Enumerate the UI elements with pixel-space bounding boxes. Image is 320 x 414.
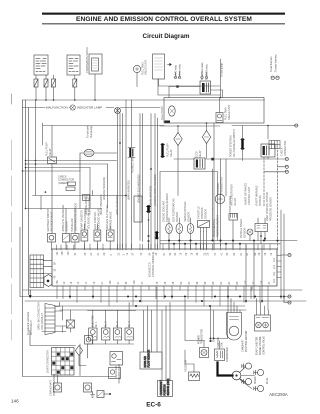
svg-text:To air flow meter: To air flow meter xyxy=(201,62,204,80)
camshaft sensor small xyxy=(84,383,92,392)
camshaft position sensor body xyxy=(227,313,242,341)
wire mid-left horizontals xyxy=(23,161,117,172)
svg-text:FLOW SENSOR: FLOW SENSOR xyxy=(148,350,151,368)
engine coolant temperature sensor xyxy=(166,224,173,234)
svg-text:(ENGINE SUB HARNESS): (ENGINE SUB HARNESS) xyxy=(138,174,141,203)
wire harness riser E xyxy=(155,114,158,249)
svg-text:(MAIN HARNESS): (MAIN HARNESS) xyxy=(128,180,131,200)
svg-text:POSITION SENSOR: POSITION SENSOR xyxy=(53,374,56,396)
connector label pair A xyxy=(174,63,181,78)
node bus2 joints xyxy=(69,296,285,308)
svg-text:PRESSURE SENSOR: PRESSURE SENSOR xyxy=(270,197,273,221)
svg-text:102: 102 xyxy=(109,280,112,285)
vehicle speed sensor box xyxy=(97,391,111,398)
oxygen sensor heater comb xyxy=(229,214,238,221)
harness label column xyxy=(103,174,157,205)
fuel pump relay label xyxy=(46,142,53,156)
node left bus joints xyxy=(22,160,27,210)
EGR valve motor circle xyxy=(247,229,253,235)
camshaft position sensor label xyxy=(242,330,248,352)
fuse F3 xyxy=(52,79,56,87)
throttle position sensor xyxy=(198,221,210,232)
svg-text:GAUGE UNIT: GAUGE UNIT xyxy=(145,60,148,75)
distributor rotor xyxy=(232,371,241,380)
svg-text:146: 146 xyxy=(11,399,19,404)
svg-text:SENSOR (OBD): SENSOR (OBD) xyxy=(168,378,170,395)
injector No2 xyxy=(102,328,110,340)
connector bold bracket A xyxy=(161,145,164,157)
svg-text:To fuel pump: To fuel pump xyxy=(221,63,224,77)
junction bus row2 xyxy=(160,243,280,245)
svg-text:FUSIBLE LINK: FUSIBLE LINK xyxy=(132,157,135,173)
terminal circle T6 xyxy=(284,297,291,305)
wire left riser A xyxy=(22,100,24,330)
injector No3 xyxy=(113,328,121,340)
ECM box xyxy=(52,249,277,286)
svg-text:RELAY: RELAY xyxy=(170,149,173,157)
svg-text:No. 1: No. 1 xyxy=(96,321,98,327)
crankshaft REF label xyxy=(50,374,57,396)
tachometer small box xyxy=(85,336,93,345)
svg-text:HO2S HEATER: HO2S HEATER xyxy=(229,196,232,213)
wire relay cluster xyxy=(160,122,220,195)
ignition switch SW1 xyxy=(34,55,48,75)
junction square bus xyxy=(205,158,240,161)
EVAP volume control valve box xyxy=(255,315,271,331)
svg-text:ENGINE AND EMISSION CONTROL OV: ENGINE AND EMISSION CONTROL OVERALL SYST… xyxy=(76,16,252,23)
consult note label xyxy=(27,312,33,335)
svg-text:To ECCS relay: To ECCS relay xyxy=(206,64,209,80)
thermal transmitter circle xyxy=(215,194,225,204)
svg-text:PLUG: PLUG xyxy=(267,378,269,384)
svg-text:113: 113 xyxy=(273,265,276,269)
terminal circle T3 xyxy=(278,165,289,168)
svg-text:POWER: POWER xyxy=(198,335,200,344)
solenoid labels mid xyxy=(81,205,113,229)
fuse F2 xyxy=(44,79,48,87)
wire mid-left risers xyxy=(52,145,108,209)
svg-text:SENSOR: SENSOR xyxy=(176,212,179,222)
wire OBD drops xyxy=(162,302,170,380)
svg-text:115: 115 xyxy=(273,279,276,283)
spark plug 4 xyxy=(254,385,264,391)
wire harness riser D xyxy=(150,114,152,249)
wire relay link xyxy=(169,85,223,97)
wire fuel pump feed vertical xyxy=(220,59,222,98)
main top bus xyxy=(23,97,265,101)
svg-text:114: 114 xyxy=(260,280,263,284)
svg-text:POSITION SENSOR: POSITION SENSOR xyxy=(246,330,248,352)
IACV label xyxy=(115,363,121,383)
svg-text:112: 112 xyxy=(244,280,247,284)
wire sensor row drops xyxy=(169,209,233,249)
wire right-bottom risers xyxy=(246,210,284,302)
fusible link FL1 xyxy=(128,148,135,158)
svg-text:103: 103 xyxy=(133,280,136,285)
svg-text:EVAP CANISTER: EVAP CANISTER xyxy=(256,336,259,355)
wire right risers xyxy=(213,123,227,248)
wire bracketC riser xyxy=(148,212,150,249)
connector ladder left xyxy=(30,255,44,288)
node EGR joints xyxy=(260,235,266,239)
IACV-FICD solenoid valve box xyxy=(109,368,121,379)
ECM left edge stubs xyxy=(43,260,57,278)
terminal circle T1 xyxy=(295,124,298,127)
fuse F1 xyxy=(34,79,38,87)
svg-text:POSITION SWITCH: POSITION SWITCH xyxy=(217,215,220,237)
connector bold bracket C xyxy=(147,207,150,212)
data link connector label xyxy=(38,302,45,330)
svg-text:CONTROL UNIT: CONTROL UNIT xyxy=(248,187,251,205)
EGR temperature sensor xyxy=(176,224,183,234)
wire right cluster xyxy=(240,125,285,159)
svg-text:SOLENOID VALVE: SOLENOID VALVE xyxy=(88,208,91,229)
terminal circle T4 xyxy=(264,170,288,173)
ignition coil label xyxy=(218,337,223,348)
wire EVAP drops xyxy=(251,287,269,315)
svg-text:SENSOR: SENSOR xyxy=(188,212,191,222)
ECM right edge pins xyxy=(273,256,281,284)
intake air temp sensor box xyxy=(71,234,79,243)
svg-text:SENSOR: SENSOR xyxy=(205,209,208,219)
svg-text:To A/C relay: To A/C relay xyxy=(175,64,178,78)
injector labels xyxy=(93,315,131,327)
wire camshaft drops xyxy=(228,287,240,312)
wire solenoid drops xyxy=(84,224,110,249)
spark plug 2 xyxy=(242,378,252,384)
fuel tank sub-harness label xyxy=(87,125,94,138)
wire bracketB riser xyxy=(232,126,295,161)
arrow to meter xyxy=(168,63,172,65)
fuse F4 xyxy=(73,79,77,87)
svg-text:CONTROL VALVE: CONTROL VALVE xyxy=(263,336,266,355)
blower switch box SW2 xyxy=(67,55,80,75)
svg-text:PURGE VOLUME: PURGE VOLUME xyxy=(260,336,262,355)
svg-text:SOLENOID VALVE: SOLENOID VALVE xyxy=(118,363,121,383)
relay K2 contacts xyxy=(194,158,205,169)
malfunction indicator lamp wire xyxy=(23,105,161,110)
left sensor labels xyxy=(47,203,78,232)
svg-text:To tail harness: To tail harness xyxy=(270,56,273,72)
svg-text:SPARK: SPARK xyxy=(254,376,257,384)
svg-text:AEC293A: AEC293A xyxy=(269,392,288,397)
ignition coil box xyxy=(215,349,225,361)
combination meter box xyxy=(89,54,102,74)
wire left riser C xyxy=(28,108,30,295)
header thick rule xyxy=(42,13,285,15)
fuel pump relay contact box xyxy=(48,157,57,164)
harness labels under line xyxy=(85,194,119,215)
svg-text:104: 104 xyxy=(67,251,70,256)
engine harness boundary xyxy=(160,172,218,249)
ECM top pin ticks xyxy=(56,244,270,250)
vacuum cut bypass valve xyxy=(107,230,115,241)
svg-text:EC-6: EC-6 xyxy=(146,402,161,409)
svg-text:POSITION: POSITION xyxy=(165,384,167,395)
terminal circle T7 xyxy=(281,253,291,256)
power transistor label xyxy=(198,329,203,344)
svg-text:JOINT CONNECTOR: JOINT CONNECTOR xyxy=(47,350,50,373)
joint connector X1 xyxy=(67,320,75,328)
spark plug label xyxy=(254,376,269,384)
svg-text:FUEL PUMP: FUEL PUMP xyxy=(161,106,164,120)
consult arrow xyxy=(29,290,32,298)
power transistor box xyxy=(200,348,209,358)
check connector grid xyxy=(269,141,280,149)
svg-text:101: 101 xyxy=(56,251,59,256)
junction bus row1 xyxy=(160,240,297,242)
scan edge artifact xyxy=(11,94,13,340)
svg-text:COMBINATION METER: COMBINATION METER xyxy=(86,47,89,73)
node riser dots xyxy=(148,219,150,242)
svg-text:RELAY: RELAY xyxy=(49,148,52,156)
svg-text:CONNECTOR: CONNECTOR xyxy=(284,140,287,156)
svg-text:(GREEN): (GREEN) xyxy=(58,182,69,185)
crankshaft position sensor REF xyxy=(54,383,62,392)
header thin rule xyxy=(42,22,285,25)
gauge sender labels xyxy=(225,105,232,120)
svg-text:(fuel pump): (fuel pump) xyxy=(90,126,93,138)
svg-text:MALFUNCTION: MALFUNCTION xyxy=(46,106,68,110)
svg-text:(ENGINE ROOM HARNESS): (ENGINE ROOM HARNESS) xyxy=(154,174,157,205)
dashed riser A xyxy=(263,157,265,206)
heated oxygen sensor xyxy=(187,224,194,234)
fuel pump relay box outline xyxy=(43,123,165,145)
EVAP purge solenoid valve xyxy=(81,230,88,241)
fuel tank gauge unit circle xyxy=(133,65,140,72)
ECCS relay label2 xyxy=(196,150,203,158)
wire SST link xyxy=(33,100,127,210)
svg-text:To main harness: To main harness xyxy=(275,54,278,72)
svg-text:Circuit Diagram: Circuit Diagram xyxy=(143,33,190,40)
wire center risers xyxy=(118,100,143,249)
svg-text:for CONSULT: for CONSULT xyxy=(30,320,33,335)
svg-text:COIL: COIL xyxy=(221,341,223,347)
svg-text:110: 110 xyxy=(273,258,276,262)
injector No1 xyxy=(89,328,97,340)
relay K0 xyxy=(200,81,211,94)
svg-text:SOLENOID VALVE: SOLENOID VALVE xyxy=(98,208,101,229)
park neutral switch labels xyxy=(213,192,273,238)
EGR control solenoid valve xyxy=(94,230,101,241)
svg-text:RELAY: RELAY xyxy=(199,150,202,158)
wire DLC links xyxy=(42,302,71,332)
svg-text:TRANSISTOR: TRANSISTOR xyxy=(201,329,204,344)
ECM top pin numbers xyxy=(56,251,273,256)
sub harness tall box xyxy=(134,196,142,222)
thermal transmitter label xyxy=(217,177,224,194)
ECM bottom pin ticks xyxy=(57,286,268,310)
fuel tank gauge sender xyxy=(216,113,223,123)
connector pentagon CN2 xyxy=(44,275,52,287)
connector bold bracket B xyxy=(241,140,244,149)
diamond D3 xyxy=(75,346,82,356)
relay coil diamond D2 xyxy=(202,131,210,144)
dashed riser B xyxy=(277,150,279,250)
terminal circle T5 xyxy=(288,295,291,298)
svg-text:IACV-FICD: IACV-FICD xyxy=(115,366,118,378)
spark high tension wire xyxy=(218,363,233,376)
fuel pump FP xyxy=(165,106,176,123)
wire MAF drops xyxy=(144,287,158,352)
IACV-AAC valve box xyxy=(110,352,123,366)
svg-text:CRANKSHAFT: CRANKSHAFT xyxy=(160,379,163,395)
svg-text:106: 106 xyxy=(56,280,59,285)
EVAP volume label xyxy=(256,336,266,355)
svg-text:RELAY: RELAY xyxy=(234,197,237,205)
MAP/BARO solenoid box xyxy=(48,234,56,243)
right sensor labels xyxy=(163,193,208,222)
ground G1 xyxy=(91,392,95,398)
wire blower feed xyxy=(74,75,76,100)
svg-text:OIL PRESSURE SWITCH: OIL PRESSURE SWITCH xyxy=(233,129,236,157)
svg-text:SENSOR: SENSOR xyxy=(244,228,247,238)
relay coil diamond D1 xyxy=(174,133,182,146)
svg-text:CONDENSER: CONDENSER xyxy=(227,347,229,362)
wire EGR links xyxy=(250,218,265,244)
tachometer box xyxy=(153,54,165,79)
connector oval CN1 xyxy=(80,149,117,171)
svg-text:GAUGE UNIT: GAUGE UNIT xyxy=(228,105,231,120)
wire bottom-left outline xyxy=(23,330,116,383)
svg-text:ECM (ECCS: ECM (ECCS xyxy=(148,262,152,277)
wire ECM underside buses xyxy=(20,227,306,310)
ECM bottom pin numbers xyxy=(56,280,271,285)
wire left sensor drops xyxy=(26,209,102,250)
injector No4 xyxy=(125,328,133,340)
battery harness label pair xyxy=(270,54,279,80)
EGR valve and EVAP vent box xyxy=(255,224,268,232)
SST note text xyxy=(58,176,74,185)
mass air flow sensor box xyxy=(140,350,162,369)
svg-text:SYSTEM): SYSTEM) xyxy=(259,195,262,206)
wire injector feeds xyxy=(88,302,136,344)
svg-text:To horn relay: To horn relay xyxy=(179,63,182,78)
A/C relay label xyxy=(231,184,238,206)
fuel tank enclosure xyxy=(164,98,264,124)
connector box small xyxy=(83,195,90,201)
svg-text:TEMPERATURE SENSOR: TEMPERATURE SENSOR xyxy=(166,193,169,222)
svg-text:108: 108 xyxy=(61,251,64,256)
spark plug 3 xyxy=(254,369,264,375)
absolute pressure sensor box xyxy=(63,234,70,243)
connector label pair B xyxy=(201,62,209,80)
resistor R1 xyxy=(189,372,200,381)
theft warning relay K3 xyxy=(261,144,275,157)
smart entrance label column xyxy=(245,183,263,206)
data link connector for consult xyxy=(45,304,55,335)
SST connector boxes xyxy=(66,182,76,190)
connector bold bracket D xyxy=(155,233,158,239)
check connector labels xyxy=(281,140,288,156)
wire ignition drops xyxy=(185,299,228,372)
ECCS relay label xyxy=(167,143,174,157)
svg-text:(ENGINE HARNESS): (ENGINE HARNESS) xyxy=(103,177,106,200)
wire ignition switch feeds xyxy=(36,75,54,100)
malfunction indicator lamp symbol xyxy=(115,108,121,114)
terminal circle T2 xyxy=(285,157,288,160)
power steering oil pressure switch label xyxy=(230,129,237,157)
wire left riser B xyxy=(25,100,27,209)
svg-text:CAMSHAFT: CAMSHAFT xyxy=(242,339,245,352)
spark plug 1 xyxy=(242,363,252,369)
wire spark fan xyxy=(240,367,255,389)
crankshaft position sensor OBD box xyxy=(158,378,173,396)
node ignition joints xyxy=(210,338,215,343)
wire meter drop xyxy=(95,73,221,100)
svg-text:116: 116 xyxy=(273,272,276,276)
wire gauge sender drop xyxy=(159,79,220,113)
svg-text:TRANSMITTER: TRANSMITTER xyxy=(221,177,224,194)
svg-text:FOR CONSULT: FOR CONSULT xyxy=(41,313,44,330)
svg-text:INDICATOR LAMP: INDICATOR LAMP xyxy=(77,106,102,110)
EGI harness grid block xyxy=(52,348,75,376)
